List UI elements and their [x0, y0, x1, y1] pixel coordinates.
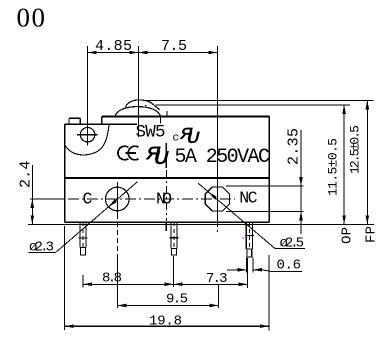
dim line 4.85 and 7.5: [88, 52, 218, 54]
switch body outline: [65, 117, 270, 223]
UL recognized mark 2: [143, 144, 172, 169]
CE mark: [118, 146, 139, 160]
terminal pin 1 (C): [79, 222, 88, 255]
terminal pin 3 (NC): [245, 222, 254, 257]
dim line 19.8: [65, 324, 269, 328]
terminal hole NC (octagon): [205, 187, 229, 211]
dim 4.85/7.5 extension line mid (dome center): [137, 46, 139, 137]
svg-text:7.5: 7.5: [161, 38, 187, 55]
dim line 9.5: [117, 304, 218, 308]
svg-text:ø2.5: ø2.5: [280, 236, 305, 252]
svg-text:9.5: 9.5: [166, 292, 188, 308]
dome edge tick: [160, 117, 162, 124]
centerline extension left: [30, 198, 65, 200]
dim 2.35 line: [299, 130, 303, 234]
plunger hidden tick: [166, 111, 168, 117]
dim 9.5 extension lines: [116, 255, 118, 308]
C hole centerline below: [116, 222, 118, 255]
svg-text:4.85: 4.85: [95, 38, 132, 55]
OP reference line: [156, 104, 351, 106]
svg-text:NO: NO: [156, 190, 172, 209]
leader diagonal for hole C (dia 2.3): [56, 182, 137, 252]
svg-text:11.5±0.5: 11.5±0.5: [326, 138, 341, 196]
dim line 7.3: [174, 283, 248, 287]
NO position hidden centerline: [165, 143, 167, 168]
dim line 8.8: [83, 283, 174, 287]
dim 19.8 extension lines: [64, 226, 66, 330]
svg-text:C: C: [83, 190, 93, 209]
bottom reference extension line: [28, 223, 374, 225]
mounting hole screw circle: [77, 128, 98, 142]
NC pocket top line: [226, 185, 303, 187]
svg-text:2.35: 2.35: [286, 128, 303, 165]
plunger dome outer: [115, 107, 161, 117]
leader diagonal for hole NC (dia 2.5): [198, 183, 274, 248]
svg-text:SW5: SW5: [136, 123, 166, 143]
svg-text:c: c: [173, 133, 180, 145]
dim 0.6: [227, 258, 302, 274]
FP reference line: [143, 99, 374, 101]
svg-text:7.3: 7.3: [206, 271, 228, 287]
molded notch contour: [65, 124, 109, 155]
terminal pin 2 (NO): [170, 222, 179, 255]
dim 11.5 (OP) line: [342, 105, 346, 224]
svg-text:19.8: 19.8: [149, 314, 182, 330]
svg-text:NC: NC: [239, 188, 257, 207]
terminal band divider: [65, 177, 270, 179]
svg-text:5A 250VAC: 5A 250VAC: [175, 146, 271, 169]
svg-text:8.8: 8.8: [102, 271, 122, 287]
label dia2.5: [275, 236, 305, 252]
dim 4.85 extension line left (screw center): [87, 46, 89, 145]
dim 7.5 extension line right / NC hole centerline: [216, 46, 218, 222]
svg-text:00: 00: [17, 3, 47, 33]
label dia2.3: [29, 240, 57, 256]
svg-text:2.4: 2.4: [18, 161, 35, 188]
dim 8.8 / 7.3 extension lines: [82, 275, 84, 288]
svg-text:OP: OP: [340, 227, 356, 244]
UL recognized mark 1: [177, 124, 203, 147]
dim 12.5 (FP) line: [366, 100, 370, 224]
svg-text:FP: FP: [364, 226, 380, 243]
svg-text:12.5±0.5: 12.5±0.5: [348, 125, 363, 174]
top plate: [102, 117, 269, 125]
band inner line (NC pocket bottom): [226, 210, 303, 212]
speck: [145, 105, 146, 106]
plunger dome inner: [126, 100, 160, 110]
mounting tab: [69, 118, 80, 124]
dim 2.4 line: [31, 165, 35, 224]
horizontal centerline through terminals: [30, 198, 235, 200]
NO centerline lower tick: [165, 222, 167, 231]
terminal hole C: [106, 182, 130, 219]
svg-text:ø2.3: ø2.3: [29, 240, 54, 256]
